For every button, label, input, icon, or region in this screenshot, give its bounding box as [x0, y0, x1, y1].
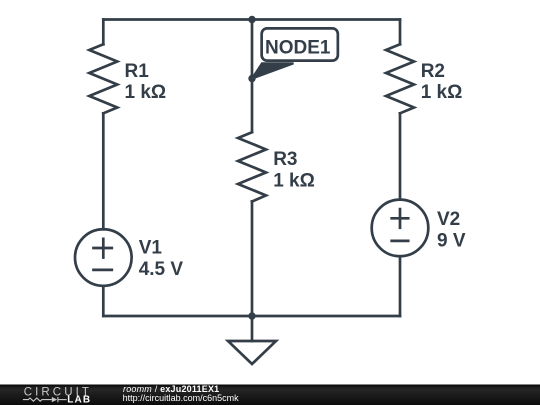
V1 minus sign [94, 269, 112, 272]
svg-text:1 kΩ: 1 kΩ [125, 82, 167, 103]
ground [228, 341, 276, 364]
resistor R2 [386, 44, 414, 113]
wire R2 to V2 [399, 113, 402, 199]
V2 plus sign [392, 209, 409, 228]
voltage source V2 [372, 200, 429, 257]
wire V1 to bottom rail [102, 286, 105, 316]
wire R1 to V1 [102, 113, 105, 229]
wire left branch top [102, 20, 105, 45]
svg-text:1 kΩ: 1 kΩ [273, 171, 315, 192]
NODE1 flag box [262, 28, 338, 60]
svg-text:R2: R2 [421, 61, 445, 82]
svg-text:R3: R3 [273, 149, 297, 170]
svg-text:V2: V2 [437, 209, 460, 230]
node NODE1 dot [248, 75, 255, 82]
resistor R3 [238, 132, 266, 201]
node junction dot top [248, 16, 255, 23]
ground stub wire [251, 316, 254, 341]
resistor R1 [89, 44, 117, 113]
svg-text:4.5 V: 4.5 V [139, 259, 184, 280]
wire right branch top [399, 20, 402, 45]
svg-text:R1: R1 [125, 61, 150, 82]
CircuitLab logo schematic squiggle [23, 397, 67, 402]
NODE1 flag tail [252, 63, 294, 78]
svg-text:LAB: LAB [67, 395, 91, 405]
V2 minus sign [392, 240, 409, 243]
svg-text:V1: V1 [139, 238, 163, 259]
wire center branch top [251, 20, 254, 133]
wire R3 to bottom rail [251, 202, 254, 317]
svg-text:http://circuitlab.com/c6n5cmk: http://circuitlab.com/c6n5cmk [123, 393, 240, 403]
wire bottom rail [103, 315, 400, 318]
wire top rail [103, 18, 400, 21]
wire V2 to bottom rail [399, 256, 402, 316]
V1 plus sign [94, 239, 112, 258]
svg-text:NODE1: NODE1 [265, 38, 331, 59]
svg-text:1 kΩ: 1 kΩ [421, 82, 463, 103]
node junction dot bottom [248, 312, 255, 319]
voltage source V1 [75, 229, 132, 286]
CircuitLab logo diode [52, 397, 57, 402]
svg-text:9 V: 9 V [437, 231, 466, 252]
